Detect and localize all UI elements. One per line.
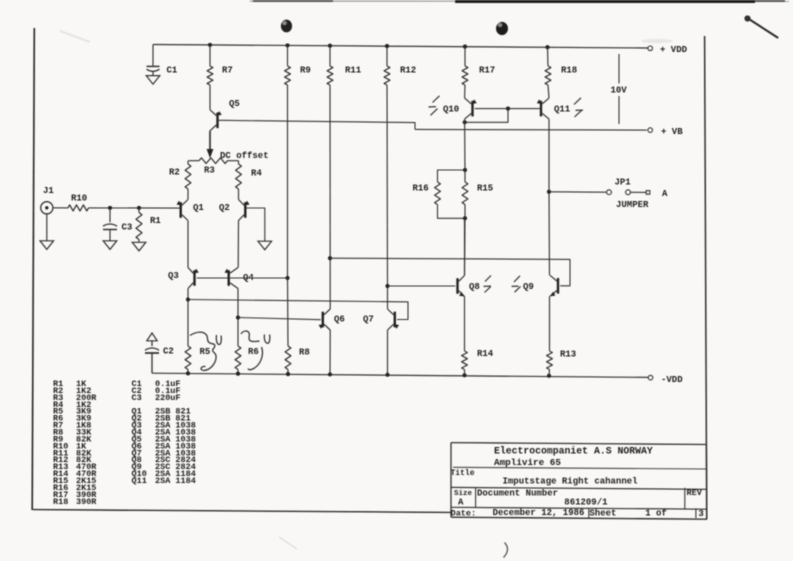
wire -VDD rail bbox=[152, 373, 648, 377]
svg-text:Document Number: Document Number bbox=[477, 488, 558, 498]
wire R18 to Q11 bbox=[548, 85, 549, 98]
wire Q4 emitter down bbox=[237, 289, 239, 347]
resistor R12 bbox=[384, 46, 416, 85]
svg-text:R18: R18 bbox=[561, 66, 577, 76]
wire R15 node to Q8 bbox=[464, 218, 467, 275]
10V marker bbox=[611, 54, 628, 124]
wire R12 down bbox=[386, 85, 389, 286]
svg-text:220uF: 220uF bbox=[155, 393, 181, 403]
resistor R13 bbox=[547, 350, 577, 376]
svg-text:R3: R3 bbox=[204, 166, 215, 176]
svg-text:J1: J1 bbox=[43, 186, 54, 196]
capacitor C1 bbox=[147, 45, 178, 76]
resistor R14 bbox=[462, 349, 494, 375]
svg-text:Title: Title bbox=[451, 469, 475, 478]
svg-text:R16: R16 bbox=[413, 184, 429, 194]
jumper JP1 bbox=[607, 178, 668, 210]
transistor Q3 bbox=[168, 268, 199, 289]
svg-text:R1: R1 bbox=[150, 216, 161, 226]
wire input to Q1 base bbox=[89, 207, 180, 209]
wire Q7 emitter to rail bbox=[387, 330, 389, 375]
node R11/wireC junction bbox=[328, 256, 332, 260]
wire R9 to node bbox=[287, 85, 289, 278]
potentiometer R3 DC offset bbox=[189, 151, 269, 176]
svg-text:Q6: Q6 bbox=[334, 315, 345, 325]
svg-text:R8: R8 bbox=[299, 348, 310, 358]
svg-text:Q11: Q11 bbox=[132, 476, 147, 486]
svg-text:Q5: Q5 bbox=[229, 99, 240, 109]
wire Q7 collector bbox=[387, 286, 389, 309]
resistor R15 bbox=[462, 170, 493, 218]
svg-text:A: A bbox=[458, 497, 464, 507]
wire Q8 collector bbox=[464, 218, 466, 275]
wire Q5 emitter / pot wiper bbox=[207, 131, 214, 158]
svg-text:Q10: Q10 bbox=[443, 105, 459, 115]
wire Q3/Q4 base to R9-R8 node bbox=[197, 277, 288, 279]
svg-text:R18: R18 bbox=[53, 497, 68, 507]
ground (C3) bbox=[103, 241, 117, 250]
node JP1 junction bbox=[547, 190, 551, 194]
transistor Q9 bbox=[523, 275, 558, 296]
wire to JP1 bbox=[549, 191, 607, 193]
pen marks near Q8 bbox=[484, 276, 492, 293]
svg-text:JP1: JP1 bbox=[615, 178, 632, 188]
wire Q3 emitter down bbox=[187, 289, 189, 347]
svg-text:DC offset: DC offset bbox=[220, 151, 269, 161]
svg-text:JUMPER: JUMPER bbox=[616, 200, 649, 210]
wire Q6 emitter to rail bbox=[329, 330, 331, 374]
transistor Q2 bbox=[219, 200, 250, 221]
svg-text:R10: R10 bbox=[71, 194, 87, 204]
terminal + VDD bbox=[648, 45, 688, 55]
svg-text:1 of: 1 of bbox=[645, 508, 667, 518]
node R16 top junction bbox=[463, 168, 467, 172]
resistor R17 bbox=[462, 47, 495, 85]
svg-text:R12: R12 bbox=[400, 66, 416, 76]
node Q10 emitter junction bbox=[463, 120, 467, 124]
svg-text:C3: C3 bbox=[122, 223, 133, 233]
node input junctions bbox=[108, 206, 141, 210]
ground (Q2 base) bbox=[258, 241, 272, 250]
wire J1 ground stem bbox=[46, 214, 48, 241]
svg-text:R15: R15 bbox=[477, 184, 493, 194]
svg-text:R14: R14 bbox=[477, 349, 494, 359]
resistor R10 bbox=[68, 194, 89, 211]
svg-text:R7: R7 bbox=[222, 66, 233, 76]
svg-text:R9: R9 bbox=[300, 66, 311, 76]
resistor R4 bbox=[236, 161, 263, 200]
svg-text:R11: R11 bbox=[345, 66, 362, 76]
pen marks near Q9 bbox=[512, 276, 521, 292]
wire R17 to Q10 bbox=[464, 85, 466, 98]
wire base jog down bbox=[465, 109, 508, 123]
terminal + VB bbox=[648, 127, 683, 137]
wire Q1 emitter to Q3 bbox=[187, 221, 189, 268]
svg-text:R13: R13 bbox=[560, 350, 576, 360]
wire Q2 base to ground bbox=[247, 208, 265, 241]
svg-text:R4: R4 bbox=[251, 169, 262, 179]
transistor Q5 bbox=[210, 99, 240, 131]
svg-text:+ VB: + VB bbox=[661, 127, 683, 137]
resistor R8 bbox=[285, 278, 310, 374]
svg-text:3: 3 bbox=[698, 509, 703, 519]
node base/R9 junction bbox=[285, 276, 289, 280]
svg-text:Q3: Q3 bbox=[168, 271, 179, 281]
node Q4 emitter junction bbox=[236, 315, 240, 319]
transistor Q8 bbox=[458, 276, 480, 297]
wire Q8 emitter to R14 bbox=[464, 297, 466, 352]
resistor R5 bbox=[185, 346, 210, 373]
svg-text:Imputstage Right cahannel: Imputstage Right cahannel bbox=[503, 477, 639, 487]
node VDD junction dots bbox=[208, 43, 550, 49]
svg-text:Date:: Date: bbox=[451, 508, 477, 518]
svg-text:REV: REV bbox=[687, 488, 703, 498]
wire Q11 emitter down bbox=[548, 119, 550, 192]
node -VDD junction dots bbox=[186, 371, 551, 378]
wire R11 node to Q9 base bbox=[330, 258, 570, 286]
wire Q10 base to Q11 base bbox=[475, 108, 540, 110]
svg-text:10V: 10V bbox=[611, 86, 628, 96]
svg-text:A: A bbox=[662, 189, 668, 199]
terminal -VDD bbox=[648, 375, 683, 385]
resistor R6 bbox=[235, 346, 259, 374]
transistor Q1 bbox=[177, 200, 205, 221]
svg-text:C3: C3 bbox=[132, 393, 142, 403]
transistor Q10 bbox=[443, 98, 477, 119]
pen marks near Q11 bbox=[574, 98, 583, 117]
wire Q2 emitter to Q4 bbox=[237, 221, 239, 268]
svg-text:R2: R2 bbox=[169, 168, 180, 178]
ground (C1) bbox=[146, 76, 160, 85]
svg-text:861209/1: 861209/1 bbox=[564, 497, 608, 507]
wire Q3 emitter to Q7 base bbox=[188, 300, 408, 320]
ground (R1) bbox=[132, 242, 146, 251]
node Q3 emitter junction bbox=[186, 297, 190, 301]
resistor R18 bbox=[545, 47, 577, 85]
svg-text:Q8: Q8 bbox=[469, 282, 480, 292]
pen marks near Q10 bbox=[429, 96, 440, 116]
parts list bbox=[53, 379, 196, 507]
pen squiggle over R5 bbox=[190, 332, 221, 370]
svg-text:+ VDD: + VDD bbox=[660, 45, 688, 55]
node R16 bottom junction bbox=[463, 216, 467, 220]
svg-text:Electrocompaniet A.S NORWAY: Electrocompaniet A.S NORWAY bbox=[494, 446, 653, 457]
svg-text:Q1: Q1 bbox=[193, 203, 204, 213]
wire to Q8 base bbox=[388, 285, 456, 287]
svg-text:390R: 390R bbox=[76, 497, 97, 507]
svg-text:C1: C1 bbox=[167, 66, 178, 76]
wire Q10 emitter down bbox=[464, 119, 466, 170]
svg-text:Amplivire 65: Amplivire 65 bbox=[494, 457, 561, 468]
transistor Q7 bbox=[363, 309, 399, 330]
svg-text:R17: R17 bbox=[479, 66, 495, 76]
node base jog junction bbox=[506, 107, 510, 111]
wire J1 to R10 bbox=[53, 207, 68, 209]
ground (J1) bbox=[40, 241, 54, 250]
wire +VDD rail bbox=[153, 45, 648, 49]
connector J1 bbox=[41, 186, 55, 214]
svg-text:Q11: Q11 bbox=[554, 105, 571, 115]
wire + VB rail bbox=[415, 128, 647, 131]
svg-text:R5: R5 bbox=[200, 347, 211, 357]
svg-text:Sheet: Sheet bbox=[589, 508, 616, 518]
wire Q9 emitter to R13 bbox=[549, 296, 551, 351]
wire Q4 emitter to Q6 base bbox=[238, 318, 321, 320]
resistor R9 bbox=[285, 45, 311, 85]
svg-text:2SA 1184: 2SA 1184 bbox=[155, 476, 196, 486]
svg-text:R6: R6 bbox=[248, 347, 259, 357]
transistor Q11 bbox=[537, 98, 571, 119]
resistor R7 bbox=[207, 45, 233, 110]
svg-text:-VDD: -VDD bbox=[661, 375, 683, 385]
resistor R11 bbox=[327, 46, 362, 85]
title block bbox=[451, 443, 708, 520]
transistor Q6 bbox=[319, 309, 345, 330]
wire Q5 base to VB bbox=[219, 120, 415, 129]
transistor Q4 bbox=[225, 268, 255, 289]
pen squiggle over R6 bbox=[241, 331, 270, 370]
svg-text:Q7: Q7 bbox=[363, 315, 374, 325]
wire Q9 collector bbox=[548, 192, 551, 275]
svg-text:Q2: Q2 bbox=[219, 203, 230, 213]
capacitor C3 bbox=[103, 208, 132, 241]
capacitor C2 bbox=[145, 333, 174, 373]
resistor R2 bbox=[169, 161, 191, 200]
node R12/Q8 base junction bbox=[385, 284, 389, 288]
resistor R1 bbox=[136, 208, 161, 242]
svg-text:C2: C2 bbox=[163, 347, 174, 357]
svg-text:Q9: Q9 bbox=[523, 282, 534, 292]
svg-text:December 12, 1986: December 12, 1986 bbox=[493, 508, 585, 518]
wire R11 down bbox=[329, 85, 331, 309]
resistor R16 bbox=[413, 170, 466, 218]
